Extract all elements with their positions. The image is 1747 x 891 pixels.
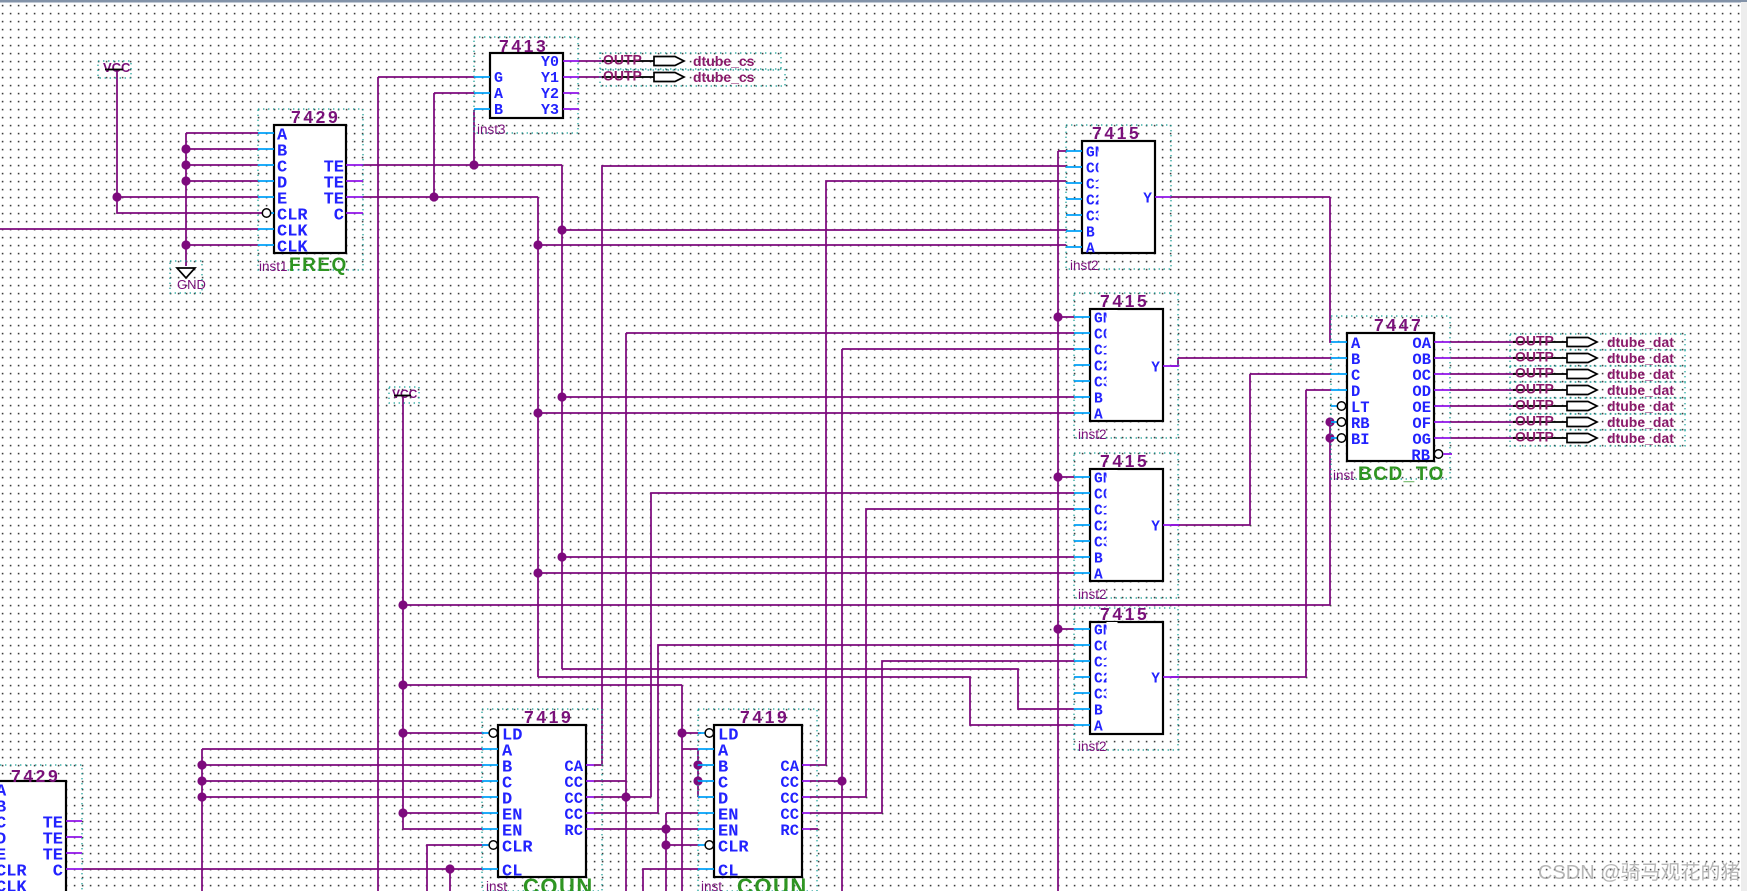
- window top border bar: [0, 0, 1747, 3]
- junction BI: [1325, 433, 1334, 442]
- svg-text:Y0: Y0: [541, 54, 559, 71]
- FREQ right stub y=197: [346, 196, 363, 198]
- svg-text:7419: 7419: [524, 707, 573, 727]
- svg-text:dtube_dat: dtube_dat: [1607, 350, 1674, 366]
- FREQ left stub y=245: [258, 244, 274, 246]
- wire 7413 pin B to TE1 net: [473, 110, 475, 165]
- output dtube_cs0 selection box: [600, 53, 781, 70]
- wire x=682 vertical: [681, 685, 683, 891]
- wire branch to counter2 CLRN and bottom: [666, 829, 699, 891]
- 74151 #2 pin GN clip: [1107, 310, 1118, 324]
- svg-text:OUTP: OUTP: [603, 68, 642, 84]
- svg-text:A: A: [494, 86, 503, 103]
- svg-text:FREQ: FREQ: [289, 255, 348, 276]
- counter 74190 #2 selection box: [698, 709, 817, 891]
- wire counter2 ABCD feed: [682, 749, 700, 797]
- svg-text:dtube_dat: dtube_dat: [1607, 366, 1674, 382]
- wire 74151#4 G stub from bus: [1058, 628, 1074, 630]
- wire 74151#2 G stub from bus: [1058, 316, 1074, 318]
- counter 74190 #1 left stub 813: [482, 812, 498, 814]
- wire net TE1 vertical x=562: [561, 165, 563, 669]
- FREQ right stub y=181: [346, 180, 363, 182]
- output dtube_cs0 pin symbol: [654, 57, 684, 66]
- counter 74190 #1 body: [498, 725, 586, 877]
- VCC2 bar: [394, 395, 411, 397]
- output dtube_cs1 selection box: [600, 69, 785, 86]
- wire GND bus vertical x=186: [185, 133, 187, 266]
- 7447 left stub y=358: [1331, 357, 1347, 359]
- wire GND bus to FREQ pin A: [186, 132, 258, 134]
- output dtube_dat4 selection box: [1510, 398, 1685, 414]
- mux 74151 #2 selection box: [1074, 293, 1178, 438]
- wire VCC1 branch to FREQ pin E: [117, 196, 258, 198]
- wire counter1 QB to 74151#2 C0: [594, 333, 1074, 891]
- svg-text:OUTP: OUTP: [1515, 413, 1554, 429]
- 74151 #4 Y stub: [1163, 676, 1179, 678]
- junction bus/counter1 D: [197, 792, 206, 801]
- wire 74151#3 Y to 7447 C: [1171, 374, 1331, 525]
- svg-text:CLK: CLK: [0, 879, 27, 891]
- junction bus/pin C: [181, 160, 190, 169]
- 74151 #2 left stub 5: [1074, 380, 1090, 382]
- 74151 #3 pin C3 clip: [1107, 534, 1118, 548]
- svg-text:GND: GND: [177, 277, 206, 292]
- counter 74190 #1 selection box: [482, 709, 602, 891]
- svg-text:VCC: VCC: [103, 60, 131, 75]
- wire FREQ TE3 output: [363, 196, 538, 198]
- counter 74190 #2 right stub 813: [802, 812, 810, 814]
- 74151 #3 left stub 5: [1074, 540, 1090, 542]
- output dtube_dat3 black lead: [1513, 389, 1567, 391]
- svg-text:B: B: [1094, 392, 1103, 408]
- 74151 #4 left stub 3: [1074, 660, 1090, 662]
- svg-text:dtube_cs: dtube_cs: [693, 69, 755, 85]
- wire counter1 QD to 74151#4 C0: [594, 645, 1074, 813]
- counter 74190 #2 right stub 781: [802, 780, 810, 782]
- 7413 left stub y=109: [474, 108, 490, 110]
- junction RCO/ENA: [661, 824, 670, 833]
- 74151 #3 Y stub: [1163, 524, 1179, 526]
- counter 74190 #1 CLK stub: [482, 868, 498, 870]
- 7447 right stub y=438: [1434, 437, 1450, 439]
- 7447 bubble y=406: [1337, 402, 1345, 410]
- counter 74190 #2 left stub 813: [698, 812, 714, 814]
- wire branch to counter2 ENA: [666, 813, 698, 829]
- output dtube_dat4 black lead: [1513, 405, 1567, 407]
- wire 7447 output Og to pin: [1450, 437, 1516, 439]
- svg-text:Y: Y: [1151, 520, 1160, 536]
- wire data bus vertical x=202: [201, 749, 203, 891]
- 74151 #3 left stub 2: [1074, 492, 1090, 494]
- svg-text:BCD_TO: BCD_TO: [1358, 464, 1445, 485]
- wire net TE3 branch row 573 to 74151#3 pin A: [538, 572, 1074, 574]
- junction TE3/row413: [533, 408, 542, 417]
- wire counter2 RCO open end: [810, 828, 818, 830]
- counter 74190 #1 left stub 781: [482, 780, 498, 782]
- wire net TE3 staircase to 74151#4 pin A: [538, 677, 1074, 725]
- 74151 #1 left stub 6: [1066, 230, 1082, 232]
- output dtube_dat5 selection box: [1510, 414, 1685, 430]
- counter 7429 FREQ body: [274, 125, 346, 253]
- junction TE1/row397: [557, 392, 566, 401]
- counter 74190 #1 LDN stub: [482, 732, 489, 734]
- svg-text:inst2: inst2: [1078, 587, 1107, 602]
- wire VCC2 vertical x=403: [402, 396, 404, 829]
- svg-text:A: A: [1094, 568, 1103, 584]
- wire VCC2 branch to counter1 ENA: [403, 812, 482, 814]
- svg-text:7419: 7419: [740, 707, 789, 727]
- svg-text:inst2: inst2: [1078, 427, 1107, 442]
- junction VCC2/row605: [398, 600, 407, 609]
- 7447 left stub y=342: [1331, 341, 1347, 343]
- 74151 #2 pin C1 clip: [1107, 342, 1118, 356]
- svg-text:dtube_dat: dtube_dat: [1607, 414, 1674, 430]
- svg-text:RB: RB: [1411, 447, 1430, 465]
- mux 74151 #1 selection box: [1066, 125, 1171, 269]
- counter 7429 FREQ selection box: [258, 109, 363, 270]
- FREQ right stub y=213: [346, 212, 363, 214]
- wire bus row to counter1 C: [202, 780, 482, 782]
- 74151 #2 left stub 1: [1074, 316, 1090, 318]
- wire 74151#1 Y to 7447 A: [1171, 197, 1331, 342]
- wire VCC2 branch row 685 (to counter2 LDN): [403, 684, 682, 686]
- FREQ left stub y=133: [258, 132, 274, 134]
- junction x682/LDN2: [677, 728, 686, 737]
- 74151 #2 left stub 7: [1074, 412, 1090, 414]
- wire 7413 pin G from x=378 vertical: [378, 76, 474, 78]
- 7413 right stub y=93: [563, 92, 579, 94]
- svg-text:C: C: [334, 207, 344, 226]
- counter 7429#2 selection box: [0, 765, 82, 891]
- wire 7447 output Oe to pin: [1450, 405, 1516, 407]
- VCC symbol 2 selection box: [389, 387, 419, 403]
- wire 7413 Y0 to output pin: [579, 60, 604, 62]
- 7429#2 right stub 869: [66, 868, 82, 870]
- 7447 bubble y=438: [1337, 434, 1345, 442]
- wire branch down x=450: [449, 869, 451, 891]
- svg-text:B: B: [494, 102, 503, 119]
- wire 7447 output Oc to pin: [1450, 373, 1516, 375]
- output dtube_dat6 selection box: [1510, 430, 1685, 446]
- wire 7447 RBI/BI vertical x=1330: [1329, 422, 1331, 605]
- 74151 #2 pin C0 clip: [1107, 326, 1118, 340]
- svg-text:Y: Y: [1151, 672, 1160, 688]
- 7447 right stub y=374: [1434, 373, 1450, 375]
- 74151 #4 left stub 1: [1074, 628, 1090, 630]
- wire VCC2 branch row 605 (to 7447 RBI/BI): [403, 604, 1330, 606]
- svg-text:inst1: inst1: [259, 259, 288, 274]
- 74151 #3 left stub 7: [1074, 572, 1090, 574]
- svg-text:Y: Y: [1151, 361, 1160, 377]
- svg-text:7429: 7429: [11, 766, 60, 786]
- 74151 #1 pin C3 clip: [1099, 208, 1110, 222]
- 7413 right stub y=77: [563, 76, 579, 78]
- GND symbol selection box: [170, 261, 202, 293]
- output dtube_dat1 black lead: [1513, 357, 1567, 359]
- wire VCC2 corner to counter1 ENB: [403, 828, 482, 830]
- counter 74190 #1 left stub 749: [482, 748, 498, 750]
- wire 74151 G vertical bus x=1058: [1057, 151, 1059, 891]
- counter 74190 #2 left stub 781: [698, 780, 714, 782]
- wire counter2 QB to 74151#2 C1: [810, 349, 1074, 891]
- counter 74190 #2 LDN stub: [698, 732, 705, 734]
- 74151 #2 left stub 2: [1074, 332, 1090, 334]
- junction TE1/row557: [557, 552, 566, 561]
- wire counter2 QA to 74151#1 C1: [810, 181, 1066, 765]
- junction x626 row797: [621, 792, 630, 801]
- 74151 #1 pin C2 clip: [1099, 192, 1110, 206]
- wire 74151#3 G stub from bus: [1058, 476, 1074, 478]
- junction VCC2/ENA1: [398, 808, 407, 817]
- svg-text:OUTP: OUTP: [1515, 349, 1554, 365]
- wire 74151#1 G corner: [1058, 150, 1066, 152]
- svg-text:VCC: VCC: [392, 387, 418, 401]
- wire net TE3 vertical x=538: [537, 197, 539, 677]
- wire net TE1 staircase to 74151#4 pin B: [562, 669, 1074, 709]
- output dtube_dat0 black lead: [1513, 341, 1567, 343]
- output dtube_cs0 black lead: [602, 60, 654, 62]
- 74151 #3 left stub 3: [1074, 508, 1090, 510]
- counter 74190 #2 CLRN bubble: [705, 841, 713, 849]
- 74151 #2 left stub 3: [1074, 348, 1090, 350]
- 74151 #4 pin C1 clip: [1107, 654, 1118, 668]
- junction RBI: [1325, 417, 1334, 426]
- counter 74190 #2 right stub 797: [802, 796, 810, 798]
- VCC symbol 1 selection box: [98, 61, 131, 78]
- counter 74190 #1 left stub 765: [482, 764, 498, 766]
- 7447 left stub y=374: [1331, 373, 1347, 375]
- junction TE3/row573: [533, 568, 542, 577]
- junction QB2: [837, 776, 846, 785]
- wire counter2 CLK from bottom: [643, 869, 700, 891]
- svg-text:inst: inst: [1333, 468, 1354, 483]
- 74151 #3 left stub 6: [1074, 556, 1090, 558]
- decoder 7447 body: [1347, 333, 1434, 461]
- 74151 #3 pin C2 clip: [1107, 518, 1118, 532]
- svg-text:inst3: inst3: [477, 122, 506, 137]
- 74151 #1 pin C0 clip: [1099, 160, 1110, 174]
- counter 74190 #2 CLK stub: [698, 868, 714, 870]
- wire counter2 QC to 74151#3 C1: [810, 509, 1074, 797]
- wire VCC2 branch to counter1 LDN: [403, 732, 484, 734]
- counter 74190 #1 LDN bubble: [489, 729, 497, 737]
- counter 74190 #2 left stub 829: [698, 828, 714, 830]
- output dtube_dat1 selection box: [1510, 350, 1685, 366]
- wire net TE1 branch row 397 to 74151#2 pin B: [562, 396, 1074, 398]
- 74151 #2 Y stub: [1163, 365, 1179, 367]
- svg-text:7429: 7429: [291, 107, 340, 127]
- wire GND bus to FREQ pin C: [186, 164, 258, 166]
- svg-text:CLR: CLR: [718, 839, 749, 858]
- 7447 RBO bubble: [1434, 450, 1442, 458]
- wire 7447 output Oa to pin: [1450, 341, 1516, 343]
- junction bus/pin D: [181, 176, 190, 185]
- svg-text:C: C: [53, 863, 63, 882]
- wire 7413 pin A to TE3 net: [434, 93, 474, 197]
- FREQ left stub y=181: [258, 180, 274, 182]
- output dtube_dat2 selection box: [1510, 366, 1685, 382]
- wire 74151#4 Y to 7447 D: [1171, 390, 1331, 677]
- output dtube_dat6 pin symbol: [1567, 434, 1597, 443]
- 74151 #1 pin GN clip: [1099, 144, 1110, 158]
- wire counter1 QC to 74151#3 C0: [594, 493, 1074, 797]
- svg-text:B: B: [1086, 226, 1095, 242]
- svg-text:inst2: inst2: [1070, 258, 1099, 273]
- wire long vertical x=378 off bottom: [377, 77, 379, 891]
- FREQ left stub y=149: [258, 148, 274, 150]
- svg-text:CLR: CLR: [502, 839, 533, 858]
- 74151 #3 pin GN clip: [1107, 470, 1118, 484]
- output dtube_cs1 black lead: [602, 76, 654, 78]
- right scrollbar strip: [1741, 2, 1747, 891]
- svg-text:B: B: [1094, 552, 1103, 568]
- junction VCC2/LDN1: [398, 728, 407, 737]
- output dtube_cs1 pin symbol: [654, 73, 684, 82]
- counter 7429#2 body: [0, 781, 66, 891]
- mux 74151 #3 selection box: [1074, 453, 1178, 598]
- svg-text:dtube_dat: dtube_dat: [1607, 334, 1674, 350]
- svg-text:Y1: Y1: [541, 70, 559, 87]
- svg-text:COUN: COUN: [523, 874, 594, 891]
- svg-text:A: A: [1094, 408, 1103, 424]
- svg-text:A: A: [1086, 242, 1095, 258]
- junction counter2 C: [693, 776, 702, 785]
- svg-text:B: B: [1094, 704, 1103, 720]
- wire 7429#2 output C to counter1 CLK: [82, 868, 482, 870]
- 74151 #1 left stub 2: [1066, 166, 1082, 168]
- junction VCC1/pin E: [112, 192, 121, 201]
- mux 74151 #2 body: [1090, 309, 1163, 421]
- wire counter1 CLRN from bottom: [427, 845, 488, 891]
- output dtube_dat4 pin symbol: [1567, 402, 1597, 411]
- 74151 #1 pin C1 clip: [1099, 176, 1110, 190]
- svg-text:Y: Y: [1143, 192, 1152, 208]
- counter 74190 #2 right stub 829: [802, 828, 810, 830]
- decoder 7413 selection box: [474, 37, 578, 133]
- counter 74190 #2 LDN bubble: [705, 729, 713, 737]
- counter 74190 #1 left stub 829: [482, 828, 498, 830]
- 7447 bubble y=422: [1337, 418, 1345, 426]
- VCC1 bar: [105, 69, 123, 71]
- counter 74190 #2 left stub 765: [698, 764, 714, 766]
- svg-text:dtube_dat: dtube_dat: [1607, 398, 1674, 414]
- 7447 left stub y=390: [1331, 389, 1347, 391]
- wire net TE1 branch row 230 to 74151#1 pin B: [562, 229, 1066, 231]
- counter 74190 #2 left stub 749: [698, 748, 714, 750]
- decoder 7413 body: [490, 53, 563, 118]
- 74151 #4 pin GN clip: [1107, 622, 1118, 636]
- svg-text:COUN: COUN: [737, 874, 808, 891]
- 7447 right stub y=390: [1434, 389, 1450, 391]
- 74151 #3 left stub 1: [1074, 476, 1090, 478]
- 7413 right stub y=61: [563, 60, 579, 62]
- svg-text:OUTP: OUTP: [1515, 381, 1554, 397]
- counter 74190 #1 CLRN bubble: [489, 841, 497, 849]
- mux 74151 #1 body: [1082, 141, 1155, 253]
- junction G bus chip2: [1053, 312, 1062, 321]
- 7429#2 right stub 821: [66, 820, 82, 822]
- junction bus/counter1 B: [197, 760, 206, 769]
- 7429#2 right stub 853: [66, 852, 82, 854]
- wire bus row to counter1 B: [202, 764, 482, 766]
- junction TE3/7413A vertical: [429, 192, 438, 201]
- wire 7413 Y1 to output pin: [579, 76, 604, 78]
- GND triangle: [177, 268, 195, 278]
- svg-text:A: A: [1094, 720, 1103, 736]
- counter 74190 #2 body: [714, 725, 802, 877]
- FREQ left stub y=165: [258, 164, 274, 166]
- svg-text:7413: 7413: [499, 36, 548, 56]
- 7447 right stub y=406: [1434, 405, 1450, 407]
- svg-text:OUTP: OUTP: [603, 52, 642, 68]
- wire counter1 RCO to counter2 ENB: [594, 828, 698, 830]
- junction TE1/row230: [557, 225, 566, 234]
- 74151 #1 left stub 1: [1066, 150, 1082, 152]
- 74151 #4 left stub 4: [1074, 676, 1090, 678]
- wire net TE1 branch row 557 to 74151#3 pin B: [562, 556, 1074, 558]
- svg-text:dtube_dat: dtube_dat: [1607, 382, 1674, 398]
- 74151 #4 pin C2 clip: [1107, 670, 1118, 684]
- 74151 #4 left stub 7: [1074, 724, 1090, 726]
- output dtube_dat2 black lead: [1513, 373, 1567, 375]
- junction VCC2/row685: [398, 680, 407, 689]
- svg-text:7415: 7415: [1092, 123, 1141, 143]
- counter 74190 #2 left stub 797: [698, 796, 714, 798]
- output dtube_dat2 pin symbol: [1567, 370, 1597, 379]
- svg-text:inst: inst: [486, 879, 507, 891]
- 74151 #2 pin C2 clip: [1107, 358, 1118, 372]
- 74151 #2 left stub 6: [1074, 396, 1090, 398]
- svg-text:dtube_dat: dtube_dat: [1607, 430, 1674, 446]
- output dtube_dat6 black lead: [1513, 437, 1567, 439]
- output dtube_dat3 pin symbol: [1567, 386, 1597, 395]
- output dtube_dat0 selection box: [1510, 334, 1685, 350]
- 7447 right stub y=342: [1434, 341, 1450, 343]
- junction TE3/row245: [533, 240, 542, 249]
- counter 74190 #1 right stub 797: [586, 796, 594, 798]
- junction bus/pin CLK3: [181, 240, 190, 249]
- svg-text:7415: 7415: [1100, 291, 1149, 311]
- counter 74190 #2 right stub 765: [802, 764, 810, 766]
- wire 7447 output Of to pin: [1450, 421, 1516, 423]
- FREQ CLK1 stub: [271, 212, 274, 214]
- FREQ left stub y=197: [258, 196, 274, 198]
- output dtube_dat5 pin symbol: [1567, 418, 1597, 427]
- counter 74190 #1 right stub 781: [586, 780, 594, 782]
- 74151 #3 pin C1 clip: [1107, 502, 1118, 516]
- svg-text:7415: 7415: [1100, 451, 1149, 471]
- output dtube_dat5 black lead: [1513, 421, 1567, 423]
- wire 7447 output Ob to pin: [1450, 357, 1516, 359]
- wire clock input from left edge to FREQ CLK2: [0, 228, 258, 230]
- 74151 #2 pin C3 clip: [1107, 374, 1118, 388]
- 7413 left stub y=93: [474, 92, 490, 94]
- 74151 #2 left stub 4: [1074, 364, 1090, 366]
- svg-text:Y3: Y3: [541, 102, 559, 119]
- wire VCC1 vertical to FREQ CLRN/E: [117, 70, 262, 213]
- FREQ left stub y=229: [258, 228, 274, 230]
- 74151 #4 left stub 2: [1074, 644, 1090, 646]
- wire 74151#2 Y to 7447 B: [1171, 358, 1331, 366]
- output dtube_dat0 pin symbol: [1567, 338, 1597, 347]
- counter 74190 #1 right stub 765: [586, 764, 594, 766]
- output dtube_dat1 pin symbol: [1567, 354, 1597, 363]
- svg-text:OUTP: OUTP: [1515, 429, 1554, 445]
- junction clk/x450: [445, 864, 454, 873]
- FREQ CLK1 bubble: [262, 209, 270, 217]
- 74151 #4 left stub 6: [1074, 708, 1090, 710]
- wire FREQ TE1 output: [363, 164, 562, 166]
